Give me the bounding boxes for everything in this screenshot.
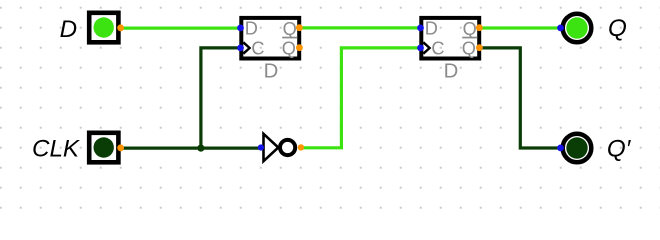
wire FF2 inverted output to output Q' (low) [480,48,560,148]
wire FF2 Q output to output Q (high) [480,26,560,29]
U1 pin label C [251,39,264,59]
svg-text:Q: Q [608,15,627,42]
U2 pin label C [431,39,444,59]
wire junction to FF1 C pin (low) [201,48,241,148]
svg-text:D: D [444,61,459,83]
U1 pin label Q inverted [282,39,296,59]
flip-flop U1 body [241,18,299,59]
U1 component label D [264,61,279,83]
input CLK [89,133,118,163]
U1 pin label D [245,19,258,39]
inverter bubble [280,140,295,155]
svg-text:Q: Q [463,19,477,39]
output Q [563,14,592,43]
inverter triangle [264,134,279,161]
U2 pin label Q inverted [462,39,476,59]
inverter output dot [298,144,304,150]
svg-text:CLK: CLK [32,135,81,162]
label Q' [607,136,632,163]
U2 input dot C [417,45,424,52]
U1 clock edge triangle [243,42,249,53]
svg-text:Q: Q [462,39,476,59]
svg-text:D: D [245,19,258,39]
wire inverter output to FF2 C pin (high) [301,48,421,148]
wire CLK input to inverter input (low) [120,147,260,150]
U2 output dot Q [476,24,483,31]
flip-flop U2 body [421,18,479,59]
U1 output dot Q [296,24,303,31]
output dot of input D [117,24,124,31]
inverter input dot [258,144,264,150]
U1 pin label Q bar line [282,37,297,39]
U2 pin label D [425,19,438,39]
svg-text:Q: Q [283,19,297,39]
junction on CLK net [197,145,204,152]
U1 input dot D [237,25,244,32]
output Q' [563,134,592,163]
svg-text:Q′: Q′ [607,136,632,163]
svg-text:C: C [431,39,444,59]
U2 pin label Q [463,19,477,39]
output dot of input CLK [117,144,124,151]
label D [60,16,77,43]
svg-text:D: D [60,16,77,43]
U2 component label D [444,61,459,83]
label Q [608,15,627,42]
U1 pin label Q [283,19,297,39]
wire FF1 Q output to FF2 D pin (high) [300,26,421,29]
U1 input dot C [237,45,244,52]
label CLK [32,135,81,162]
svg-text:C: C [251,39,264,59]
input D [89,13,118,43]
U2 input dot D [417,25,424,32]
svg-text:Q: Q [282,39,296,59]
U2 clock edge triangle [423,42,429,53]
U2 pin label Q bar line [462,37,477,39]
svg-text:D: D [264,61,279,83]
wire D input to FF1 D pin (high) [120,27,241,30]
input dot of output Q' [557,145,564,152]
U1 output dot Q inverted [296,44,303,51]
U2 output dot Q inverted [476,44,483,51]
input dot of output Q [557,25,564,32]
svg-text:D: D [425,19,438,39]
